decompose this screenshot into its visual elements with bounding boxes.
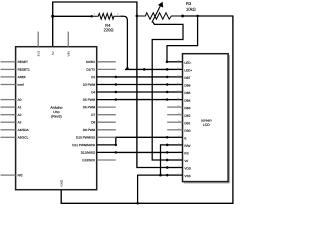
wire pot wiper to LCD V0 — [152, 22, 183, 160]
node VSS endpoint dot — [166, 174, 169, 177]
wire 5V rail: 5V pin up, top rail, down to pot-left and LCD VDD — [53, 2, 168, 168]
pin D2 — [97, 76, 116, 78]
pin D10 PWM/SS — [97, 136, 116, 138]
node pot-left junction dot — [136, 15, 139, 18]
pin RESET — [1, 61, 16, 63]
pin N/C — [1, 174, 16, 176]
pin DB6 — [167, 84, 182, 86]
pin RS — [167, 151, 182, 153]
Arduino Uno U1 box — [16, 47, 97, 190]
pin A1 — [1, 106, 16, 108]
node GND rail junction dot — [136, 202, 138, 204]
potentiometer R3 — [137, 2, 183, 23]
wire R4 to LED+ — [120, 16, 167, 69]
pin DB7 — [167, 76, 182, 78]
pin AREF — [1, 76, 16, 78]
wire VSS to GND rail — [138, 175, 168, 203]
pin 5V (top) label — [52, 51, 54, 55]
label R4 220 ohm — [104, 24, 114, 31]
wire R/W to VSS-GND wire — [161, 145, 168, 175]
pin DB4 — [167, 99, 182, 101]
node R/W endpoint dot — [166, 144, 169, 147]
pin LED- — [167, 61, 182, 63]
pin A4/SDA — [1, 129, 16, 131]
wire D12 to RS — [116, 151, 167, 153]
pin D7 — [97, 114, 116, 116]
pin A5/SCL — [1, 136, 16, 138]
node V0 endpoint dot — [166, 159, 169, 162]
node LED- endpoint dot — [166, 61, 169, 64]
wire D3 to DB6 — [116, 84, 167, 86]
pin R/W — [167, 144, 182, 146]
node LED- tee dot — [196, 15, 198, 17]
pin D3 PWM — [97, 84, 116, 86]
pin DB2 — [167, 114, 182, 116]
pin V0 — [167, 159, 182, 161]
node pot-right junction dot — [181, 15, 184, 18]
pin D12/MISO — [97, 151, 116, 153]
pin D9 PWM — [97, 129, 116, 131]
pin D5 PWM — [97, 99, 116, 101]
pin GND (bottom) label — [60, 180, 62, 187]
node LED+ wire mid dot — [143, 68, 146, 71]
pin DB3 — [167, 106, 182, 108]
pin ioref — [1, 84, 16, 86]
pin D1/TX — [97, 68, 116, 70]
wire 5V to R4 — [53, 15, 92, 17]
label R3 10k ohm — [186, 2, 195, 11]
pin VSS — [167, 174, 182, 176]
pin DB0 — [167, 129, 182, 131]
resistor R4 — [92, 13, 121, 19]
pin D11 PWM/MOSI — [97, 144, 116, 146]
pin DB5 — [167, 91, 182, 93]
wire GND: pot-right, right edge, bottom rail, to arduino GND pin — [61, 16, 233, 203]
wire D11 to E — [116, 137, 167, 145]
wire D2 to DB7 — [116, 76, 167, 78]
pin D8 — [97, 121, 116, 123]
pin D6 PWM — [97, 106, 116, 108]
pin E — [167, 136, 182, 138]
wire D4 to DB5 — [116, 91, 167, 93]
pin D0/RX — [97, 61, 116, 63]
pin 3V3 (top) — [37, 32, 39, 47]
pin LED+ — [167, 68, 182, 70]
pin VDD — [167, 167, 182, 169]
pin DB1 — [167, 121, 182, 123]
node R4 left wire endpoint dot — [91, 15, 93, 17]
node LED+ endpoint dot — [166, 68, 169, 71]
wire D5 to DB4 — [116, 99, 167, 101]
pin D4 — [97, 91, 116, 93]
LCD U2 box with shadow — [183, 54, 230, 183]
pin A3 — [1, 121, 16, 123]
pin VIN (top) — [67, 32, 69, 47]
node 5V junction dot — [51, 15, 54, 18]
node R/W tee dot — [159, 174, 162, 177]
pin D13/SCK — [97, 159, 116, 161]
pin A2 — [1, 114, 16, 116]
node R4/LED+ bend dot — [126, 67, 129, 70]
pin RESET2 — [1, 68, 16, 70]
pin A0 — [1, 99, 16, 101]
node VDD wire endpoint dot — [166, 166, 169, 169]
wire LED- to GND line — [167, 16, 198, 62]
